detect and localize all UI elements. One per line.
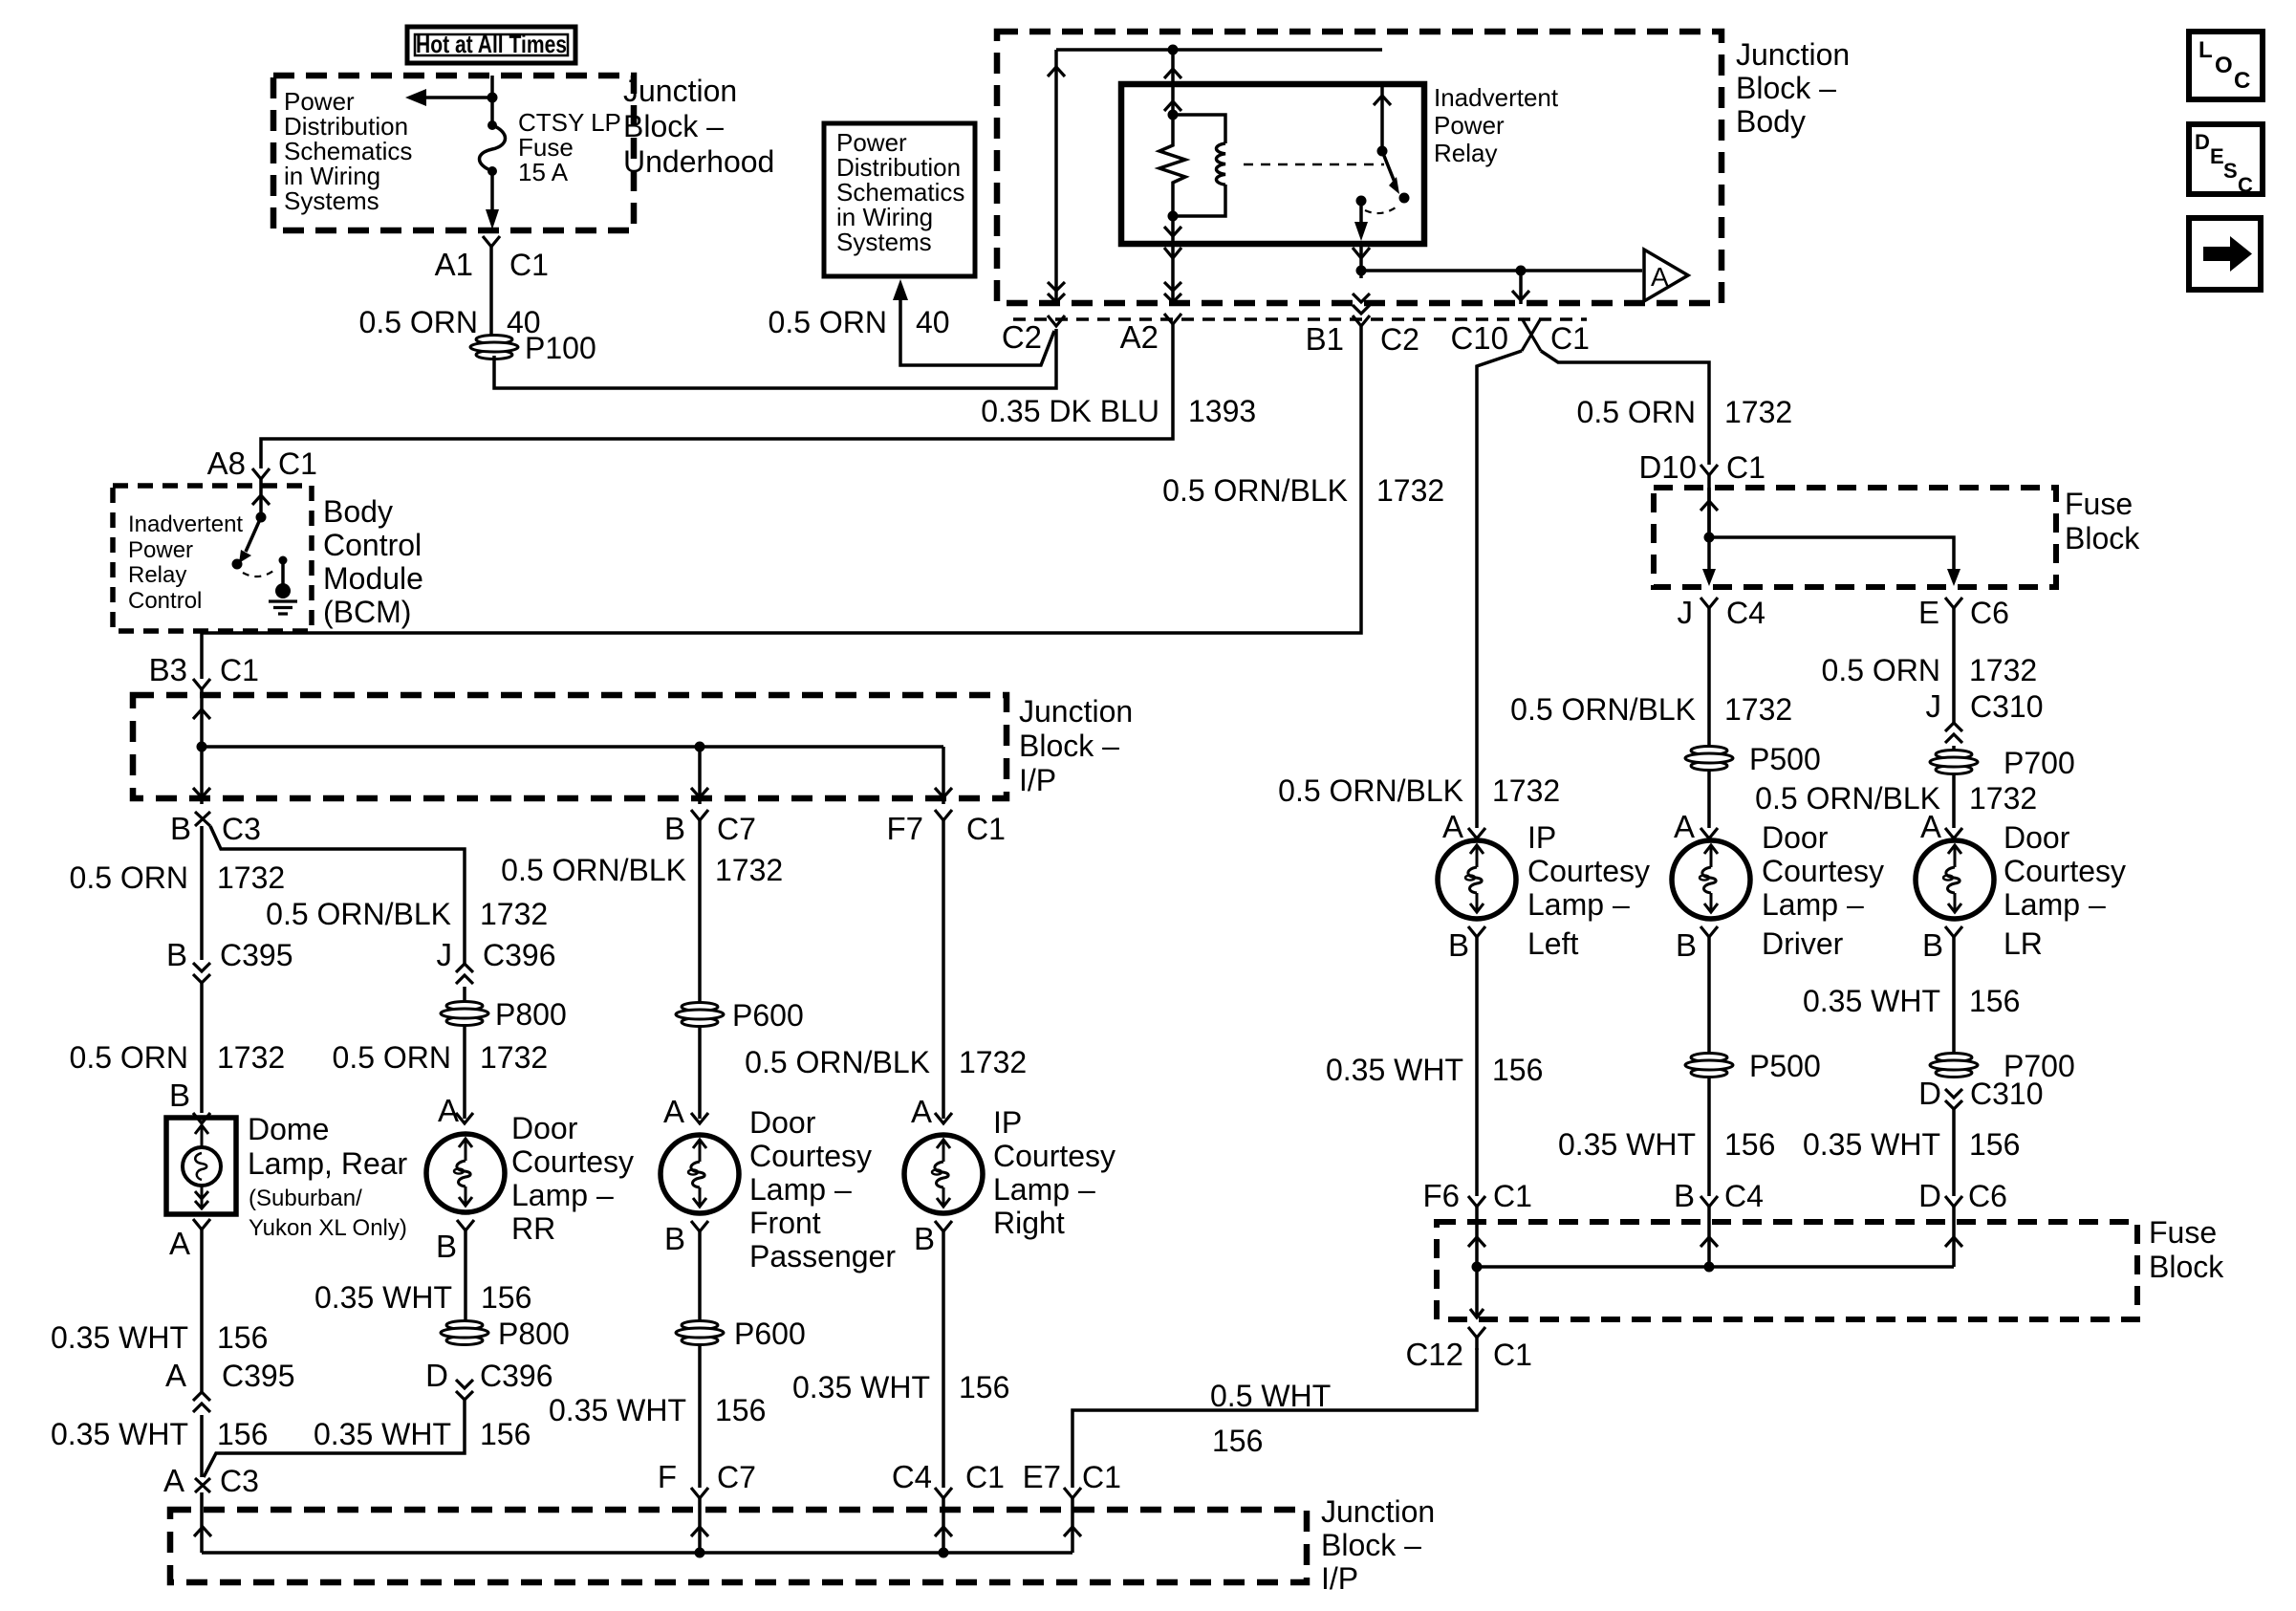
node at fuse feed xyxy=(487,93,498,103)
svg-text:C4: C4 xyxy=(1724,1179,1764,1213)
svg-text:Front: Front xyxy=(749,1206,821,1240)
wire C7 drop in I/P block xyxy=(698,747,702,804)
svg-text:1732: 1732 xyxy=(217,860,285,895)
svg-text:P600: P600 xyxy=(734,1317,806,1351)
wire internal bus top of junction block body xyxy=(1056,48,1382,52)
wire D C6 into fuse block lower xyxy=(1952,1207,1956,1267)
svg-text:Underhood: Underhood xyxy=(623,144,774,179)
wire resistor bottom to A2 exit xyxy=(1171,216,1175,244)
svg-text:1732: 1732 xyxy=(1724,692,1792,727)
svg-text:Control: Control xyxy=(323,528,422,562)
svg-text:A: A xyxy=(438,1093,459,1128)
wire C10 drop xyxy=(1519,271,1523,304)
wire B1 dashed drop xyxy=(1359,271,1363,283)
connector A2 xyxy=(1164,314,1181,324)
svg-text:P500: P500 xyxy=(1749,1049,1821,1083)
svg-text:Right: Right xyxy=(993,1206,1065,1240)
connector A C3 X xyxy=(195,1478,210,1492)
label Junction Block - I/P (lower) xyxy=(1321,1494,1435,1596)
resistor of relay xyxy=(1159,115,1185,216)
svg-text:0.35 WHT: 0.35 WHT xyxy=(1558,1127,1696,1162)
svg-text:0.35 WHT: 0.35 WHT xyxy=(792,1370,930,1404)
svg-text:B: B xyxy=(914,1221,935,1256)
wire B C3 to RR branch xyxy=(210,826,465,964)
svg-text:1393: 1393 xyxy=(1188,394,1256,428)
wire C12 C1 riser to 0.5 WHT run xyxy=(1475,1338,1479,1350)
wire D C396 to A C3 xyxy=(204,1400,465,1477)
svg-text:0.35 WHT: 0.35 WHT xyxy=(314,1280,452,1315)
wire D C310 to D C6 xyxy=(1952,1109,1956,1196)
wire B C4 into fuse block lower xyxy=(1707,1207,1711,1267)
wire P700 to LR lamp xyxy=(1952,773,1956,828)
svg-text:Door: Door xyxy=(2004,820,2070,855)
svg-text:A: A xyxy=(663,1094,684,1129)
svg-text:F6: F6 xyxy=(1422,1178,1460,1213)
svg-text:C: C xyxy=(2238,173,2253,197)
svg-text:Relay: Relay xyxy=(1434,139,1497,167)
svg-text:P500: P500 xyxy=(1749,742,1821,776)
svg-text:Driver: Driver xyxy=(1762,926,1844,961)
splice P700 xyxy=(1930,751,1978,774)
svg-text:0.35 WHT: 0.35 WHT xyxy=(1803,984,1940,1018)
connector D C310 xyxy=(1945,1089,1962,1098)
connector C2 (left) xyxy=(1048,316,1065,326)
svg-text:L: L xyxy=(2199,37,2213,63)
svg-text:156: 156 xyxy=(480,1417,531,1451)
wire relay coil feed xyxy=(1171,50,1175,84)
splice P800 return xyxy=(441,1321,488,1345)
svg-text:A8: A8 xyxy=(207,446,246,481)
label IP Courtesy Lamp - Left xyxy=(1527,820,1650,961)
label Door Courtesy Lamp - Driver xyxy=(1762,820,1884,961)
svg-text:Body: Body xyxy=(323,494,393,529)
svg-text:S: S xyxy=(2223,159,2238,183)
svg-text:0.5 ORN: 0.5 ORN xyxy=(70,1040,188,1075)
connector B3 C1 xyxy=(193,679,210,689)
node C4 on lower bus xyxy=(939,1548,949,1558)
svg-text:C1: C1 xyxy=(965,1460,1005,1494)
svg-text:1732: 1732 xyxy=(715,853,783,887)
svg-text:D: D xyxy=(2195,130,2210,154)
label A dome xyxy=(193,1219,210,1230)
svg-text:Yukon XL Only): Yukon XL Only) xyxy=(249,1215,407,1241)
svg-text:(BCM): (BCM) xyxy=(323,595,411,629)
svg-text:C7: C7 xyxy=(717,1460,756,1494)
wire dome return lower xyxy=(200,1415,204,1477)
svg-text:Fuse: Fuse xyxy=(2065,487,2133,521)
wire E C6 down xyxy=(1952,608,1956,723)
wire P100 to C2 junction block body xyxy=(494,329,1056,388)
svg-text:Lamp –: Lamp – xyxy=(993,1172,1095,1207)
svg-text:156: 156 xyxy=(481,1280,531,1315)
door courtesy lamp driver bulb xyxy=(1672,840,1750,919)
label Door Courtesy Lamp - LR xyxy=(2004,820,2126,961)
svg-text:40: 40 xyxy=(916,305,950,339)
svg-text:J: J xyxy=(1926,688,1942,724)
svg-text:0.5 ORN: 0.5 ORN xyxy=(1577,395,1696,429)
svg-text:A2: A2 xyxy=(1120,319,1159,355)
wire dome lamp branch mid xyxy=(200,983,204,1113)
connector B C7 xyxy=(691,810,708,820)
svg-text:Door: Door xyxy=(749,1105,816,1140)
svg-text:A: A xyxy=(1442,809,1463,844)
svg-text:C1: C1 xyxy=(1493,1338,1532,1372)
svg-text:Door: Door xyxy=(511,1111,578,1145)
svg-text:1732: 1732 xyxy=(480,1040,548,1075)
connector A8 C1 at BCM xyxy=(252,468,270,479)
svg-text:C1: C1 xyxy=(278,446,317,481)
svg-text:A: A xyxy=(1674,809,1695,844)
wire B C7 to P600 xyxy=(698,820,702,1003)
connector E C6 xyxy=(1945,598,1962,608)
node fuse block upper bus xyxy=(1704,533,1715,543)
svg-text:0.5 ORN/BLK: 0.5 ORN/BLK xyxy=(1510,692,1696,727)
wire 0.5 ORN 40 from A1 to P100 xyxy=(489,247,493,335)
node C7 branch in I/P block xyxy=(695,742,705,752)
svg-text:D: D xyxy=(425,1358,448,1393)
svg-text:P800: P800 xyxy=(498,1317,570,1351)
svg-text:RR: RR xyxy=(511,1211,555,1246)
svg-text:C310: C310 xyxy=(1970,689,2044,724)
svg-text:A: A xyxy=(1920,809,1941,844)
svg-text:Courtesy: Courtesy xyxy=(993,1139,1116,1173)
wire bus inside junction block I/P upper xyxy=(200,689,204,804)
body control module dashed box xyxy=(113,486,312,631)
node front passenger on lower bus xyxy=(695,1548,705,1558)
svg-text:1732: 1732 xyxy=(959,1045,1027,1079)
svg-text:C395: C395 xyxy=(220,938,293,972)
door courtesy lamp front passenger bulb xyxy=(661,1135,739,1213)
wire bus inside junction block I/P lower xyxy=(202,1551,1072,1555)
svg-text:Lamp, Rear: Lamp, Rear xyxy=(248,1146,408,1181)
connector D C396 xyxy=(456,1380,473,1388)
svg-text:B: B xyxy=(436,1229,457,1264)
fuse block lower dashed box xyxy=(1437,1222,2137,1319)
svg-text:Systems: Systems xyxy=(836,228,932,256)
svg-text:Courtesy: Courtesy xyxy=(2004,854,2126,888)
svg-text:D: D xyxy=(1918,1076,1941,1111)
svg-text:C395: C395 xyxy=(222,1359,295,1393)
splice P600 xyxy=(676,1003,724,1027)
junction block body dashed box xyxy=(997,32,1722,303)
svg-text:A: A xyxy=(1651,262,1669,292)
wire dome lamp return xyxy=(200,1230,204,1392)
svg-text:Relay: Relay xyxy=(128,562,186,588)
svg-text:Lamp –: Lamp – xyxy=(1527,887,1630,922)
label box "Hot at All Times" xyxy=(407,27,575,63)
wire front passenger return xyxy=(698,1231,702,1321)
label Dome Lamp, Rear (Suburban/Yukon XL Only) xyxy=(248,1112,408,1241)
svg-text:1732: 1732 xyxy=(1724,395,1792,429)
label Inadvertent Power Relay Control xyxy=(128,512,243,614)
svg-text:Block: Block xyxy=(2149,1250,2224,1284)
svg-text:Courtesy: Courtesy xyxy=(1527,854,1650,888)
svg-text:B: B xyxy=(169,1078,190,1113)
svg-text:Control: Control xyxy=(128,588,202,614)
connector J C310 xyxy=(1945,734,1962,743)
label Fuse Block (upper) xyxy=(2065,487,2140,555)
dome lamp rear xyxy=(166,1118,236,1214)
wires inside fuse block lower xyxy=(1470,1267,1954,1317)
svg-text:0.35 WHT: 0.35 WHT xyxy=(1803,1127,1940,1162)
svg-text:C396: C396 xyxy=(483,938,556,972)
label Power Distribution Schematics (middle) xyxy=(836,128,964,256)
wire driver return xyxy=(1707,937,1711,1054)
svg-text:Junction: Junction xyxy=(1736,37,1850,72)
svg-text:156: 156 xyxy=(1969,1127,2020,1162)
node coil-resistor top xyxy=(1168,110,1179,120)
door courtesy lamp RR bulb xyxy=(426,1134,505,1212)
svg-text:C1: C1 xyxy=(1550,321,1590,356)
svg-text:B1: B1 xyxy=(1306,321,1344,357)
svg-text:C7: C7 xyxy=(717,812,756,846)
wire resistor top feed xyxy=(1171,84,1175,115)
svg-text:C1: C1 xyxy=(1726,450,1765,485)
svg-text:B: B xyxy=(170,811,191,846)
splice P800 xyxy=(441,1002,488,1026)
svg-text:Junction: Junction xyxy=(623,74,737,108)
svg-text:0.5 ORN/BLK: 0.5 ORN/BLK xyxy=(266,897,451,931)
node relay feed xyxy=(1168,45,1179,55)
svg-text:C4: C4 xyxy=(892,1459,932,1494)
label Fuse Block (lower) xyxy=(2149,1215,2224,1284)
wire J C310 to P700 xyxy=(1952,746,1956,751)
IP courtesy lamp left bulb xyxy=(1438,840,1516,919)
svg-text:15 A: 15 A xyxy=(518,158,569,186)
svg-text:Junction: Junction xyxy=(1019,694,1133,729)
svg-text:A: A xyxy=(911,1094,932,1129)
svg-text:1732: 1732 xyxy=(217,1040,285,1075)
svg-text:Systems: Systems xyxy=(284,186,379,215)
svg-text:156: 156 xyxy=(217,1417,268,1451)
wire RR return to P800 xyxy=(464,1230,467,1321)
svg-text:156: 156 xyxy=(1492,1053,1543,1087)
label Junction Block - I/P (upper) xyxy=(1019,694,1133,797)
svg-text:1732: 1732 xyxy=(1969,781,2037,816)
svg-text:P800: P800 xyxy=(495,997,567,1032)
svg-text:0.5 ORN/BLK: 0.5 ORN/BLK xyxy=(501,853,686,887)
connector B1 C2 xyxy=(1353,316,1370,326)
reference box Power Distribution Schematics in Wiring Systems (middle) xyxy=(824,123,975,276)
svg-text:I/P: I/P xyxy=(1019,763,1056,797)
wire E7 C1 riser xyxy=(1071,1498,1074,1553)
svg-text:C3: C3 xyxy=(222,812,261,846)
label IP Courtesy Lamp - Right xyxy=(993,1105,1116,1240)
svg-text:Body: Body xyxy=(1736,104,1806,139)
svg-text:0.5 ORN/BLK: 0.5 ORN/BLK xyxy=(1162,473,1348,508)
connector A1 C1 xyxy=(483,236,500,247)
svg-text:P700: P700 xyxy=(2004,746,2075,780)
fuse block upper dashed box xyxy=(1654,488,2056,587)
svg-text:0.5 ORN/BLK: 0.5 ORN/BLK xyxy=(745,1045,930,1079)
svg-text:Lamp –: Lamp – xyxy=(511,1178,614,1212)
svg-text:B: B xyxy=(166,937,187,972)
svg-text:B3: B3 xyxy=(149,652,187,687)
svg-text:156: 156 xyxy=(1969,984,2020,1018)
connector E7 C1 xyxy=(1064,1488,1081,1498)
splice P700 return xyxy=(1930,1054,1978,1078)
svg-text:Block: Block xyxy=(2065,521,2140,555)
junction block underhood dashed box xyxy=(273,76,634,230)
connector C4 C1 xyxy=(935,1488,952,1498)
svg-text:Block –: Block – xyxy=(1736,71,1836,105)
wire 0.5 ORN/BLK 1732 from B1 to B3 xyxy=(202,326,1361,679)
IP courtesy lamp right bulb xyxy=(904,1135,983,1213)
wires inside fuse block upper xyxy=(1700,488,1960,586)
node coil-resistor bottom xyxy=(1168,211,1179,222)
svg-text:C6: C6 xyxy=(1970,596,2009,630)
connector F7 C1 xyxy=(935,810,952,820)
wire C10 left branch to IP left lamp xyxy=(1477,351,1522,828)
svg-text:0.35 WHT: 0.35 WHT xyxy=(314,1417,451,1451)
door courtesy lamp LR bulb xyxy=(1916,840,1994,919)
connector B C3 X xyxy=(195,812,210,826)
svg-text:C1: C1 xyxy=(966,812,1006,846)
label Junction Block - Underhood xyxy=(623,74,774,179)
label Power Distribution Schematics in Wiring Systems (left) xyxy=(284,87,412,215)
arrow to power distribution (left) xyxy=(405,89,492,106)
svg-text:B: B xyxy=(1922,927,1943,963)
connector F6 C1 at fuse block xyxy=(1468,1196,1485,1207)
svg-text:C3: C3 xyxy=(220,1464,259,1498)
ground inside BCM xyxy=(269,556,297,615)
svg-text:0.5 ORN: 0.5 ORN xyxy=(1822,653,1940,687)
wire C10 right branch to D10 xyxy=(1541,351,1709,465)
label Door Courtesy Lamp - Front Passenger xyxy=(749,1105,896,1274)
svg-text:A: A xyxy=(169,1226,190,1261)
fuse CTSY LP 15A xyxy=(480,120,506,176)
svg-text:1732: 1732 xyxy=(1492,773,1560,808)
svg-text:C1: C1 xyxy=(220,653,259,687)
svg-text:Lamp –: Lamp – xyxy=(2004,887,2106,922)
svg-text:Inadvertent: Inadvertent xyxy=(128,512,243,537)
splice P500 xyxy=(1685,747,1733,771)
svg-text:P100: P100 xyxy=(525,331,596,365)
connector D C6 at fuse block xyxy=(1945,1196,1962,1207)
reference triangle A xyxy=(1644,250,1688,301)
connector F C7 xyxy=(691,1488,708,1498)
svg-text:Power: Power xyxy=(128,537,193,563)
wire 0.5 ORN 40 reference arrow from C2 xyxy=(893,279,1054,365)
svg-text:1732: 1732 xyxy=(1969,653,2037,687)
svg-text:156: 156 xyxy=(715,1393,766,1427)
wire P500 return to B C4 xyxy=(1707,1077,1711,1196)
wire IP right return xyxy=(942,1231,945,1488)
wire P500 to driver lamp xyxy=(1707,770,1711,828)
junction block I/P lower dashed box xyxy=(170,1510,1307,1582)
splice P500 return xyxy=(1685,1054,1733,1078)
wire LR return xyxy=(1952,937,1956,1054)
svg-text:Dome: Dome xyxy=(248,1112,329,1146)
connector B C4 at fuse block xyxy=(1700,1196,1718,1207)
svg-text:J: J xyxy=(1678,595,1694,630)
wire J C396 to P800 xyxy=(463,987,466,1002)
inadvertent power relay box xyxy=(1121,84,1424,244)
svg-text:P600: P600 xyxy=(732,998,804,1033)
svg-text:C1: C1 xyxy=(1082,1460,1121,1494)
svg-text:0.35 WHT: 0.35 WHT xyxy=(51,1417,188,1451)
svg-text:(Suburban/: (Suburban/ xyxy=(249,1186,362,1211)
svg-text:IP: IP xyxy=(1527,820,1556,855)
wire F6 into fuse block lower xyxy=(1475,1207,1479,1267)
legend box DESC xyxy=(2189,124,2263,197)
wire B1 exit below relay xyxy=(1359,244,1363,271)
wire P600 return to F C7 xyxy=(698,1344,702,1488)
svg-text:B: B xyxy=(664,1221,685,1256)
svg-text:LR: LR xyxy=(2004,926,2043,961)
svg-text:Hot at All Times: Hot at All Times xyxy=(416,30,567,58)
svg-text:O: O xyxy=(2215,53,2233,78)
svg-text:F: F xyxy=(658,1459,677,1494)
svg-text:E: E xyxy=(2210,144,2224,168)
svg-text:Fuse: Fuse xyxy=(2149,1215,2217,1250)
wire A2 to BCM horizontal 0.35 DK BLU xyxy=(261,324,1173,468)
svg-text:Door: Door xyxy=(1762,820,1829,855)
svg-text:C12: C12 xyxy=(1405,1337,1463,1372)
BCM switch inadvertent power relay control xyxy=(232,479,278,577)
svg-text:C10: C10 xyxy=(1450,320,1508,356)
svg-text:Lamp –: Lamp – xyxy=(1762,887,1864,922)
svg-text:A: A xyxy=(165,1358,186,1393)
svg-text:A1: A1 xyxy=(435,247,473,282)
svg-text:Block –: Block – xyxy=(1321,1528,1421,1562)
connector J C4 xyxy=(1700,598,1718,608)
svg-text:0.5 ORN/BLK: 0.5 ORN/BLK xyxy=(1278,773,1463,808)
label Junction Block - Body xyxy=(1736,37,1850,139)
svg-text:156: 156 xyxy=(217,1320,268,1355)
connector C10 C1 X xyxy=(1522,318,1541,351)
svg-text:Junction: Junction xyxy=(1321,1494,1435,1529)
svg-text:J: J xyxy=(437,937,453,972)
wire C4 C1 into junction block I/P lower xyxy=(942,1498,945,1553)
svg-text:Block –: Block – xyxy=(623,109,724,143)
svg-text:1732: 1732 xyxy=(1376,473,1444,508)
node fuse block lower bus mid xyxy=(1704,1262,1715,1273)
svg-text:Courtesy: Courtesy xyxy=(1762,854,1884,888)
svg-text:1732: 1732 xyxy=(480,897,548,931)
wire P600 to front passenger lamp xyxy=(698,1026,702,1119)
svg-text:A: A xyxy=(163,1463,184,1498)
connector C12 C1 xyxy=(1468,1327,1485,1338)
svg-text:0.5 ORN: 0.5 ORN xyxy=(70,860,188,895)
connector J C396 xyxy=(456,975,473,984)
svg-text:Left: Left xyxy=(1527,926,1578,961)
svg-text:C: C xyxy=(2234,68,2250,94)
svg-text:C4: C4 xyxy=(1726,596,1765,630)
relay actuation dashed link xyxy=(1244,163,1384,166)
node C10 branch xyxy=(1516,266,1527,276)
svg-text:F7: F7 xyxy=(886,811,923,846)
svg-text:E: E xyxy=(1918,595,1939,630)
legend box arrow xyxy=(2189,218,2261,290)
wire F C7 into junction block I/P lower xyxy=(698,1498,702,1553)
legend box LOC xyxy=(2189,32,2263,99)
splice P600 return xyxy=(676,1321,724,1345)
svg-text:IP: IP xyxy=(993,1105,1022,1140)
svg-text:Block –: Block – xyxy=(1019,729,1119,763)
connector A C395 xyxy=(193,1404,210,1412)
wire dome lamp branch upper xyxy=(200,826,204,960)
wire J C4 to P500 xyxy=(1707,608,1711,747)
svg-text:0.5 ORN: 0.5 ORN xyxy=(333,1040,451,1075)
svg-text:D10: D10 xyxy=(1638,449,1697,485)
wire F7 drop in I/P block xyxy=(942,747,945,804)
svg-text:0.5 WHT: 0.5 WHT xyxy=(1210,1379,1331,1413)
svg-text:Courtesy: Courtesy xyxy=(511,1144,634,1179)
svg-text:B: B xyxy=(1448,927,1469,963)
svg-text:Power: Power xyxy=(1434,111,1505,140)
label Body Control Module (BCM) xyxy=(323,494,423,629)
